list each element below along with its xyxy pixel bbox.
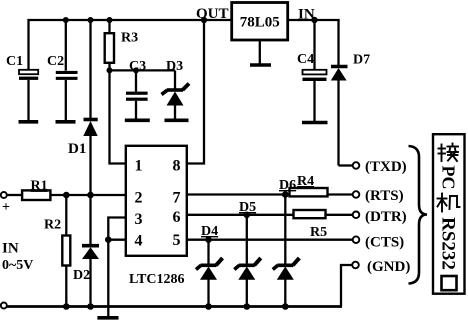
junction dot IN/C4 (311, 17, 317, 23)
svg-text:R2: R2 (44, 218, 61, 233)
resistor R3 (105, 19, 138, 164)
junction dot D4 (205, 236, 212, 243)
svg-text:C3: C3 (129, 59, 146, 74)
zener diode D6 (273, 178, 300, 307)
ground C4 (302, 121, 328, 125)
svg-text:R1: R1 (31, 179, 48, 194)
regulator 78L05 (232, 3, 288, 41)
capacitor C3 (126, 59, 148, 119)
svg-text:D2: D2 (73, 268, 90, 283)
junction dot rail R2 (63, 303, 70, 310)
svg-text:C2: C2 (47, 54, 64, 69)
junction dot C2/top (63, 17, 69, 23)
junction dot C3 (133, 67, 139, 73)
wire GND terminal to rail (341, 265, 352, 307)
svg-text:(TXD): (TXD) (365, 159, 407, 175)
svg-text:IN: IN (2, 241, 19, 257)
svg-text:C1: C1 (6, 54, 23, 69)
svg-text:4: 4 (135, 233, 143, 250)
junction dot rail D2 (87, 303, 94, 310)
svg-text:(DTR): (DTR) (365, 209, 407, 225)
resistor R1 (22, 179, 50, 201)
zener diode D3 (162, 59, 190, 119)
resistor R2 (44, 195, 70, 307)
wire top rail (28, 19, 232, 21)
svg-text:0~5V: 0~5V (2, 258, 33, 273)
zener diode D5 (234, 200, 260, 307)
capacitor C1 (6, 19, 38, 121)
terminal RTS (353, 191, 360, 198)
svg-text:(GND): (GND) (367, 259, 410, 275)
capacitor C4 (297, 20, 327, 121)
zener diode D4 (196, 224, 223, 307)
ground C1 (19, 120, 39, 124)
junction dot rail D4 (205, 303, 212, 310)
junction dot D1/top (88, 17, 94, 23)
svg-text:2: 2 (135, 190, 143, 207)
connector label box RS232 (433, 134, 465, 294)
resistor R4 (290, 174, 328, 196)
junction dot rail D5 (244, 303, 251, 310)
wire R4 to RTS (328, 193, 353, 195)
wire pin3 to ground line (108, 218, 126, 317)
junction dot rail D6 (282, 303, 289, 310)
svg-text:+: + (2, 200, 10, 215)
svg-text:D3: D3 (166, 59, 183, 74)
svg-text:(CTS): (CTS) (365, 235, 404, 251)
resistor R5 (294, 210, 328, 240)
junction dot D1 D2 (87, 192, 94, 199)
wire 78L05 output to IN to D7 corner (288, 19, 340, 21)
op-amp U1 LTC1286 body (126, 146, 187, 256)
wire R3 to pin1 (108, 162, 126, 164)
svg-text:D4: D4 (201, 224, 218, 239)
junction dot branch (107, 67, 113, 73)
terminal input+ (1, 192, 7, 198)
diode D1 (68, 19, 98, 195)
capacitor C2 (47, 19, 78, 121)
ground C2 (56, 120, 76, 124)
brace (409, 146, 428, 284)
terminal CTS (353, 236, 360, 243)
wire pin8 to OUT (186, 19, 204, 164)
svg-text:7: 7 (173, 190, 181, 207)
wire pin5 CTS row (186, 239, 353, 241)
svg-text:78L05: 78L05 (240, 15, 280, 31)
svg-text:D1: D1 (68, 141, 86, 157)
wire D7 to TXD (339, 164, 353, 166)
wire pin4 (108, 239, 126, 241)
diode D2 (73, 195, 99, 307)
svg-text:1: 1 (135, 158, 143, 175)
wire branch to C3 D3 (110, 69, 176, 71)
ground C3 (125, 119, 150, 123)
svg-text:D5: D5 (239, 200, 256, 215)
terminal TXD (353, 162, 360, 169)
junction dot D6 (282, 191, 289, 198)
junction dot R3/top (107, 17, 113, 23)
svg-text:R4: R4 (297, 174, 314, 189)
svg-text:D7: D7 (353, 53, 370, 68)
svg-text:C4: C4 (297, 52, 314, 67)
terminal GND (352, 262, 359, 269)
wire pin2 row left (7, 194, 22, 196)
svg-text:8: 8 (173, 158, 181, 175)
svg-text:D6: D6 (279, 178, 296, 193)
svg-text:LTC1286: LTC1286 (129, 272, 185, 287)
wire 78L05 ground lead (259, 40, 261, 64)
svg-text:RS232: RS232 (438, 217, 459, 270)
glyph kou (442, 276, 457, 290)
wire bottom rail (7, 305, 342, 308)
wire pin6 DTR row (186, 214, 293, 216)
terminal input- (1, 303, 7, 309)
svg-text:R3: R3 (121, 31, 138, 46)
svg-text:6: 6 (173, 209, 181, 226)
junction dot D5 (244, 212, 251, 219)
svg-text:5: 5 (173, 232, 181, 249)
wire pin7 RTS row (186, 193, 289, 195)
ground main (97, 316, 118, 320)
svg-text:R5: R5 (310, 225, 327, 240)
ground D3 (165, 119, 189, 123)
junction dot R2 top (63, 192, 70, 199)
wire R5 to DTR (326, 214, 353, 216)
glyph ji (438, 194, 460, 212)
svg-text:3: 3 (135, 211, 143, 228)
junction dot pin4 (105, 236, 112, 243)
diode D7 (331, 19, 370, 166)
svg-text:PC: PC (439, 166, 459, 190)
ground 78L05 (250, 63, 271, 67)
svg-text:(RTS): (RTS) (365, 188, 404, 204)
junction dot OUT (201, 17, 207, 23)
terminal DTR (353, 212, 360, 219)
wire R1 to pin2 (50, 194, 126, 196)
glyph jie (439, 144, 459, 162)
